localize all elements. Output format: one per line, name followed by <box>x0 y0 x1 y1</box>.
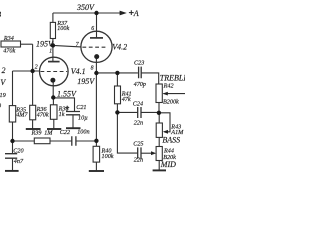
junction R41 bottom / C24 / C25 <box>115 110 119 114</box>
ground below R40 <box>89 170 104 172</box>
wire C24 right to R42/R43 node <box>141 111 159 113</box>
wire C23 to R42 top <box>141 73 158 84</box>
resistor R34 box <box>1 41 21 47</box>
svg-text:C22: C22 <box>60 129 70 136</box>
svg-text:100k: 100k <box>57 25 69 32</box>
svg-text:B: B <box>0 10 2 19</box>
svg-text:4n7: 4n7 <box>14 158 24 165</box>
V4.2 grid dashed <box>82 46 107 48</box>
wire R37 top lead <box>52 13 54 22</box>
svg-text:A1M: A1M <box>170 129 184 136</box>
capacitor C22 plates <box>72 136 76 146</box>
polarity + C21 <box>65 106 69 110</box>
resistor R37 box <box>50 22 55 38</box>
resistor R41 box <box>115 86 121 104</box>
resistor R40 box <box>93 146 100 162</box>
resistor R39 box <box>34 138 50 144</box>
svg-text:TREBLE: TREBLE <box>160 73 185 82</box>
capacitor C20 plates <box>5 154 17 159</box>
svg-text:470k: 470k <box>37 112 49 119</box>
wire bottom rail R39 to C22 <box>50 140 72 142</box>
svg-text:2: 2 <box>2 66 6 75</box>
svg-text:470p: 470p <box>134 81 146 88</box>
svg-text:C24: C24 <box>133 100 143 107</box>
svg-text:V: V <box>0 78 6 87</box>
wire R37 bottom lead to anode node <box>52 39 54 46</box>
ground below C21 <box>66 127 81 129</box>
svg-text:10µ: 10µ <box>78 115 88 122</box>
wire R41 bottom lead to node <box>116 104 118 113</box>
svg-text:MID: MID <box>160 160 176 169</box>
svg-text:1.55V: 1.55V <box>57 89 77 98</box>
wire V4.1 cathode stub to node <box>52 80 54 97</box>
svg-text:8: 8 <box>91 66 94 72</box>
R42 wiper arrowhead <box>163 92 168 96</box>
svg-text:22n: 22n <box>134 119 143 126</box>
svg-text:V4.1: V4.1 <box>71 67 86 76</box>
triode V4.2 envelope <box>81 31 112 62</box>
svg-text:195V: 195V <box>36 39 54 48</box>
ground below R38 <box>47 128 61 130</box>
wire cathode node to C21 <box>53 98 74 111</box>
wire R35 bottom to rail junction <box>12 122 14 141</box>
node +A arrow <box>120 11 127 16</box>
wire grid node 2 horizontal <box>13 70 39 72</box>
wire R42/R43 node to R43 wiper <box>159 113 170 132</box>
wire R43 bottom to R44 top <box>158 137 160 146</box>
wire R34 right lead <box>21 43 33 45</box>
wire R41 top lead <box>116 73 118 86</box>
svg-text:470k: 470k <box>3 48 15 55</box>
svg-text:1: 1 <box>49 49 52 55</box>
svg-text:22n: 22n <box>134 156 143 163</box>
V4.1 grid dashed <box>41 71 68 73</box>
wire R38 bottom to ground <box>53 119 55 128</box>
potentiometer R42 box <box>156 84 162 103</box>
capacitor C21 plates <box>66 112 80 115</box>
svg-text:R34: R34 <box>3 35 14 42</box>
wire cathode node to C23 <box>96 72 137 74</box>
V4.1 anode plate <box>48 61 60 63</box>
wire anode node to V4.2 grid pin7 <box>53 45 81 47</box>
svg-text:19: 19 <box>0 92 6 99</box>
wire C25 right to R44 wiper <box>141 152 152 154</box>
wire V4.2 cathode stub pin8 <box>95 57 97 73</box>
svg-text:R39: R39 <box>31 130 42 137</box>
svg-text:100k: 100k <box>102 153 114 160</box>
wire R44 bottom to ground <box>158 161 160 170</box>
svg-text:A: A <box>133 9 139 18</box>
resistor R35 box <box>9 106 15 122</box>
wire junction to C20 top <box>12 141 14 154</box>
wire 350V rail <box>53 12 121 14</box>
wire C21 bottom to ground <box>72 115 74 128</box>
potentiometer R43 box <box>156 123 162 137</box>
V4.1 cathode dot <box>50 78 55 83</box>
svg-text:350V: 350V <box>76 3 95 12</box>
svg-text:C21: C21 <box>76 104 86 111</box>
junction grid node 2 <box>30 69 34 73</box>
wire node down to C25 left <box>117 112 137 153</box>
svg-text:B20k: B20k <box>163 154 176 161</box>
capacitor C24 plates <box>138 107 141 118</box>
svg-text:B200k: B200k <box>163 99 179 106</box>
wire R40 bottom to ground <box>95 162 97 170</box>
ground below R36 <box>26 128 41 130</box>
wire R43 top lead <box>158 113 160 123</box>
R43 wiper arrowhead <box>163 130 168 134</box>
junction V4.2 cathode node <box>94 71 98 75</box>
svg-text:6: 6 <box>91 26 94 32</box>
wire R36 bottom to ground <box>32 120 34 129</box>
junction left rail / R35 / C20 <box>10 139 14 143</box>
V4.2 anode plate <box>90 37 103 39</box>
wire R34 down through node 2 to R36 <box>32 44 34 105</box>
svg-text:V4.2: V4.2 <box>112 43 127 52</box>
junction rail / R40 / cathode line <box>94 139 98 143</box>
ground below R44 <box>153 169 166 171</box>
ground below C20 <box>5 170 19 172</box>
label +A <box>129 10 134 15</box>
wire bottom rail left segment <box>13 140 35 142</box>
svg-text:4M7: 4M7 <box>16 112 28 119</box>
svg-text:C23: C23 <box>134 59 144 66</box>
svg-text:C25: C25 <box>133 140 143 147</box>
wire rail node to R40 top <box>95 141 97 147</box>
V4.2 cathode dot <box>94 54 99 59</box>
resistor R36 box <box>30 105 36 120</box>
svg-text:1k: 1k <box>59 111 65 118</box>
capacitor C23 plates <box>139 67 142 79</box>
svg-text:2: 2 <box>35 64 38 70</box>
svg-text:47k: 47k <box>122 96 131 103</box>
wire node to C24 left <box>117 111 137 113</box>
svg-text:C20: C20 <box>13 148 24 155</box>
junction R42 bottom / R43 / C24 <box>157 111 161 115</box>
R44 wiper arrowhead <box>151 151 156 155</box>
wire R42 bottom to node <box>158 103 160 113</box>
wire C20 bottom to ground <box>12 158 14 170</box>
junction R41 top <box>115 71 119 75</box>
wire V4.2 anode stub pin6 <box>96 13 98 38</box>
svg-text:1M: 1M <box>44 130 53 137</box>
svg-text:BASS: BASS <box>162 136 180 145</box>
triode V4.1 envelope <box>40 57 69 86</box>
capacitor C25 plates <box>138 147 141 158</box>
svg-text:100n: 100n <box>77 129 89 136</box>
wire V4.1 anode stub pin1 <box>52 45 54 61</box>
potentiometer R44 box <box>156 147 162 161</box>
wire bottom rail C22 to R40 node <box>76 140 96 142</box>
junction V4.1 cathode node <box>51 95 55 99</box>
svg-text:0: 0 <box>0 103 2 110</box>
wire node 2 down to R35 <box>12 71 14 106</box>
junction V4.2 anode at rail <box>94 11 98 15</box>
svg-text:195V: 195V <box>77 77 95 86</box>
wire R42 wiper output <box>163 93 185 95</box>
wire cathode node down to bottom rail <box>95 73 97 141</box>
wire cathode node to R38 top <box>52 98 54 105</box>
resistor R38 box <box>50 105 57 120</box>
svg-text:R42: R42 <box>163 83 174 90</box>
junction V4.1 anode node <box>51 43 55 47</box>
